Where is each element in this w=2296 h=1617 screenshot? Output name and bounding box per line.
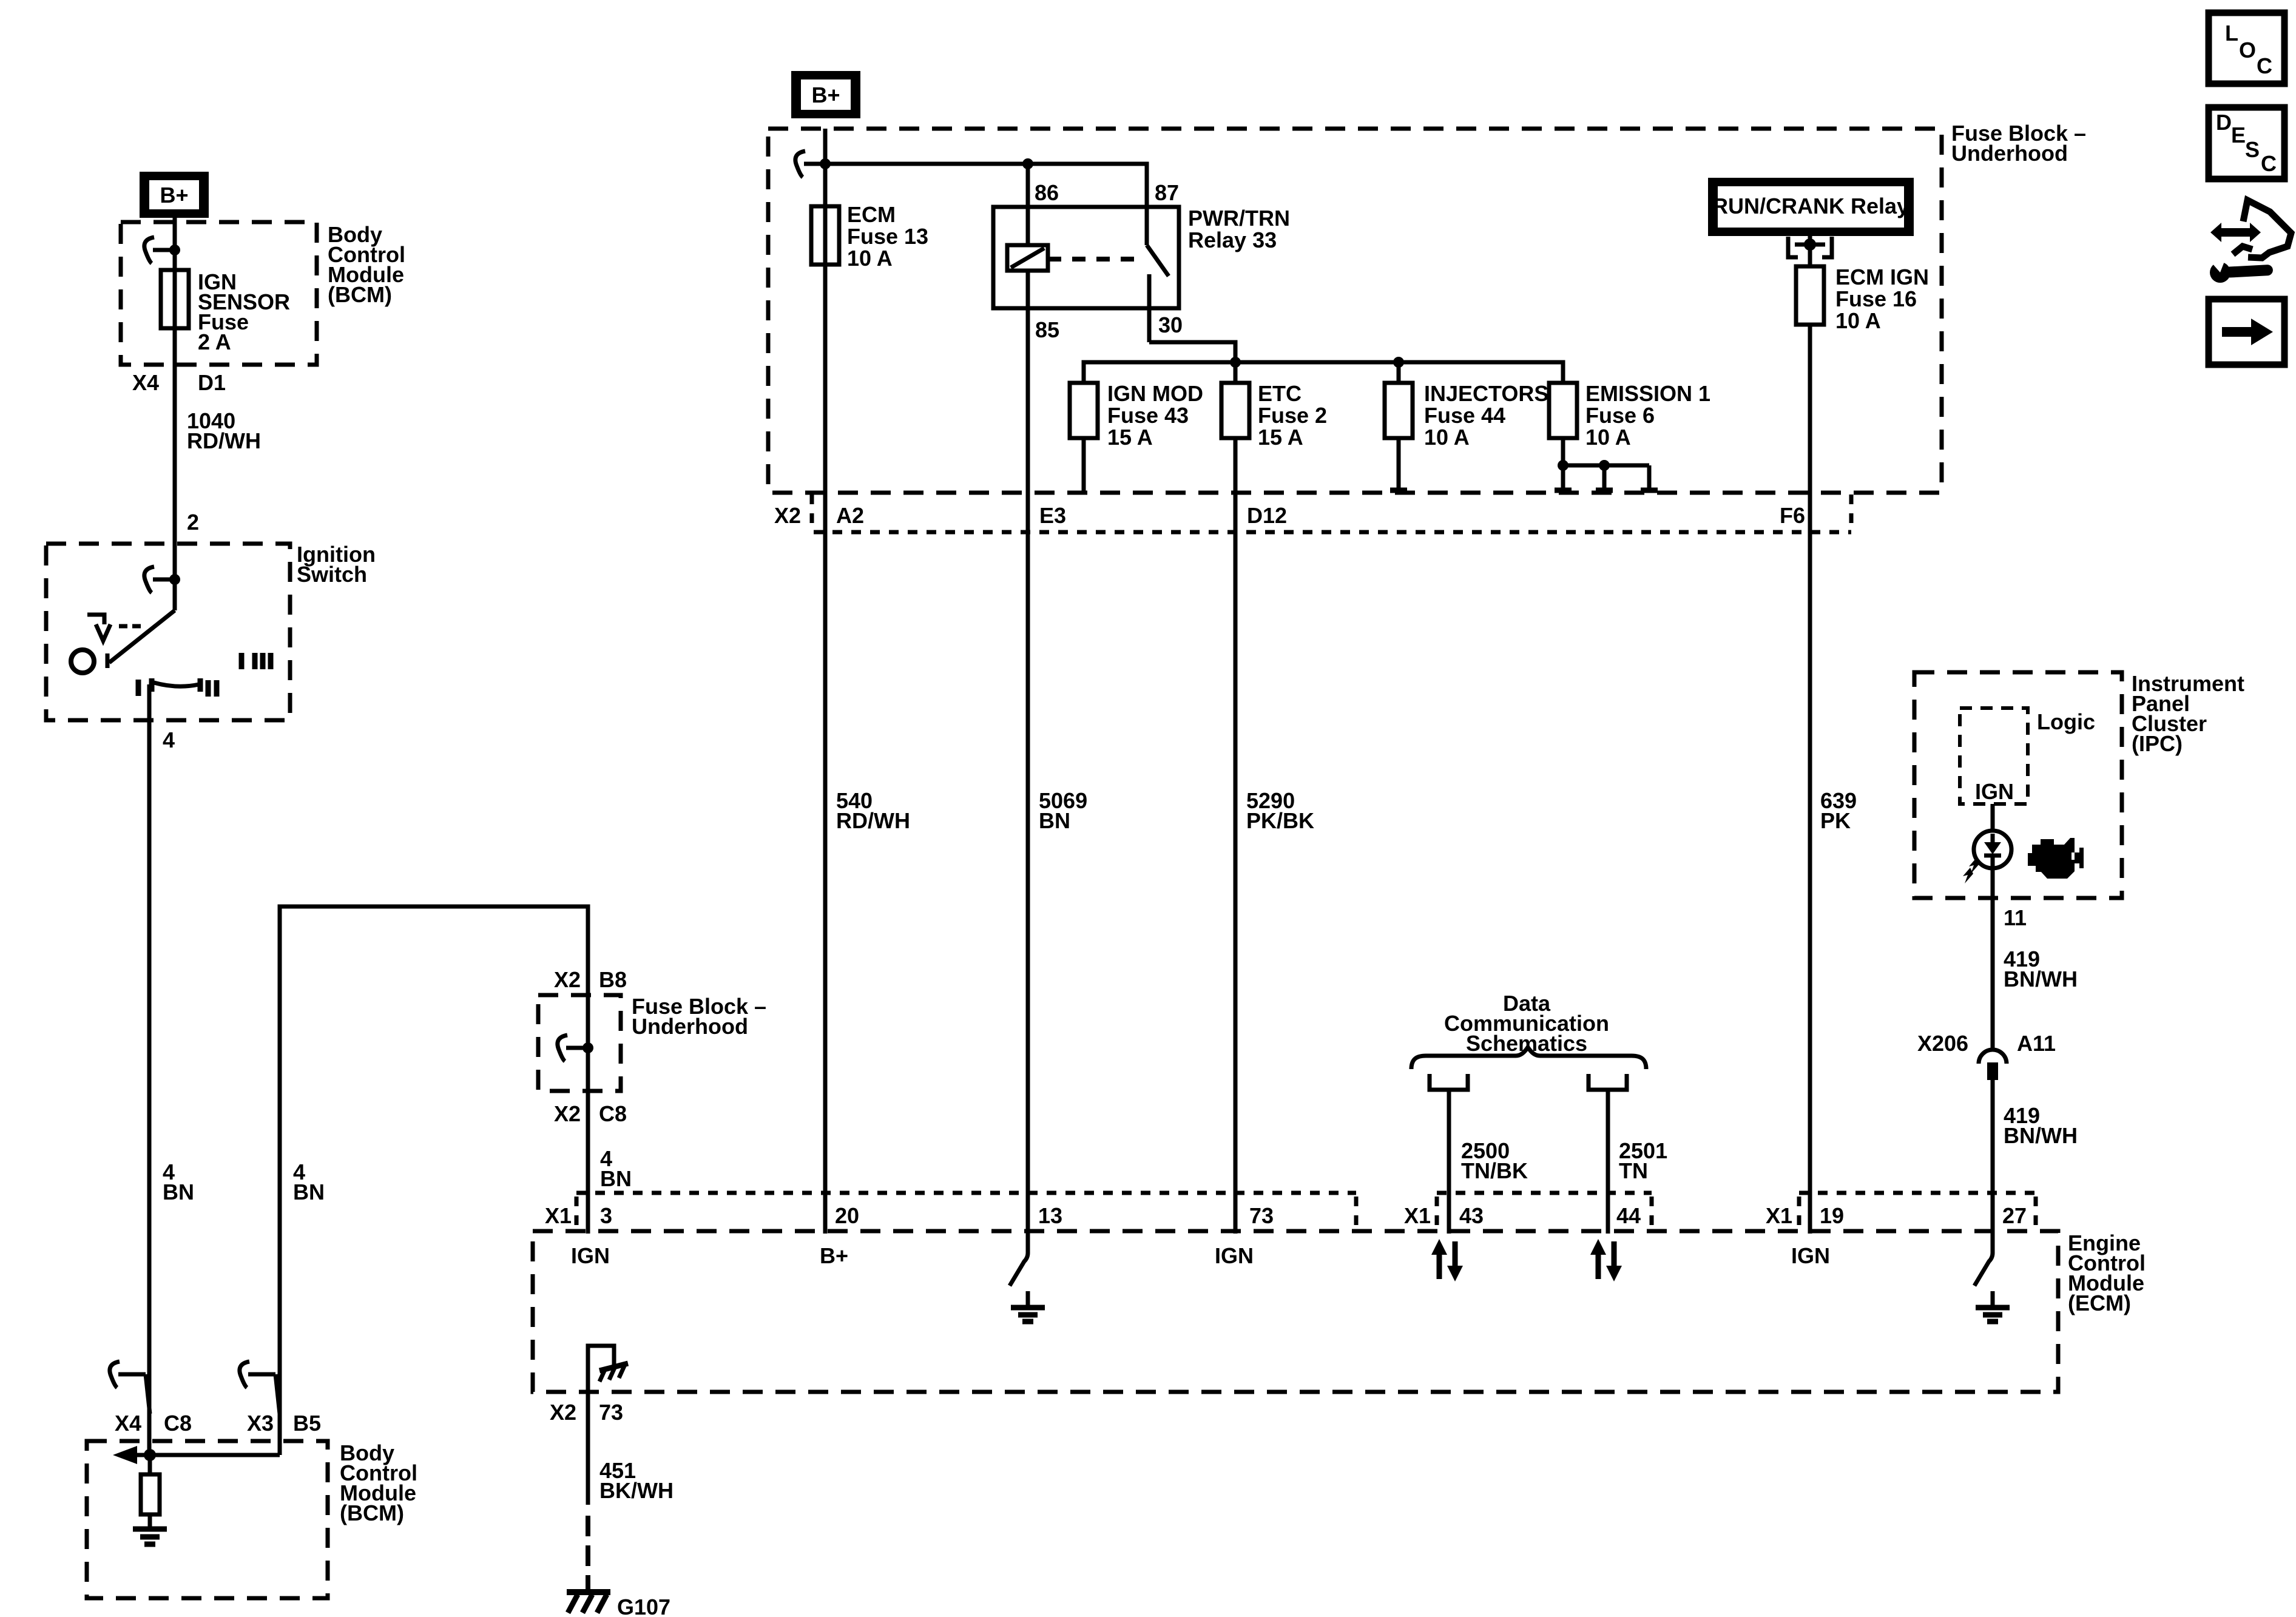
svg-text:X1: X1 bbox=[1404, 1203, 1431, 1228]
ECM pin function labels bbox=[571, 1243, 1830, 1268]
wire 2500 TN/BK to ECM pin 43 bbox=[1449, 1090, 1528, 1234]
BCM bottom pin labels bbox=[115, 1411, 321, 1436]
svg-text:TN: TN bbox=[1619, 1158, 1648, 1183]
icon electrical repair (arrow + wrench) bbox=[2206, 200, 2291, 283]
wire 639 PK : fuse 16 to ECM pin 19 bbox=[1780, 325, 1857, 1234]
svg-text:F6: F6 bbox=[1780, 503, 1805, 528]
Data Communication Schematics label bbox=[1444, 991, 1609, 1056]
wire 5290 PK/BK : ETC fuse to ECM pin 73 bbox=[1235, 438, 1314, 1234]
position marks I III bbox=[241, 653, 271, 669]
ground G107 bbox=[567, 1585, 670, 1617]
svg-text:(BCM): (BCM) bbox=[340, 1501, 404, 1525]
fuse bus bbox=[1084, 357, 1563, 383]
connector clip BCM X3 bbox=[240, 1362, 280, 1414]
svg-text:C8: C8 bbox=[164, 1411, 192, 1436]
svg-text:BN: BN bbox=[1039, 808, 1070, 833]
wire 4 BN labels (left) bbox=[163, 1160, 194, 1204]
ECM internal chassis ground (X2-73) bbox=[588, 1346, 628, 1392]
svg-text:10 A: 10 A bbox=[1835, 308, 1881, 333]
dashed ground lead bbox=[586, 1516, 590, 1592]
svg-text:RUN/CRANK Relay: RUN/CRANK Relay bbox=[1712, 194, 1909, 218]
BCM internal junction and arrow bbox=[113, 1441, 280, 1464]
wire 540 RD/WH : fuse 13 to ECM pin 20 bbox=[825, 164, 910, 1234]
RUN/CRANK Relay label box bbox=[1708, 178, 1914, 236]
svg-text:RD/WH: RD/WH bbox=[187, 428, 261, 453]
relay pin labels bbox=[1035, 180, 1183, 342]
wire 4 BN branch to fuse block bbox=[280, 906, 588, 1441]
svg-text:BN/WH: BN/WH bbox=[2004, 967, 2078, 991]
position arc I II bbox=[138, 678, 217, 697]
svg-text:4: 4 bbox=[163, 727, 175, 752]
bidirectional arrows at pin 44 bbox=[1590, 1239, 1622, 1281]
Engine Control Module (ECM) box bbox=[533, 1231, 2058, 1392]
wire 1040 RD/WH bbox=[132, 328, 261, 544]
svg-text:C: C bbox=[2261, 151, 2277, 176]
svg-text:B+: B+ bbox=[820, 1243, 848, 1268]
svg-text:2 A: 2 A bbox=[198, 329, 231, 354]
wire ignition switch pin 4 bbox=[149, 684, 175, 1455]
fuse EMISSION 1 Fuse 6 10 A bbox=[1549, 381, 1710, 450]
svg-text:Underhood: Underhood bbox=[1951, 141, 2068, 166]
svg-text:IGN: IGN bbox=[571, 1243, 610, 1268]
svg-text:30: 30 bbox=[1158, 312, 1183, 337]
svg-text:PK/BK: PK/BK bbox=[1246, 808, 1314, 833]
svg-text:Switch: Switch bbox=[297, 562, 367, 587]
brace bbox=[1411, 1047, 1646, 1069]
ignition switch rotor circle bbox=[71, 650, 94, 673]
connector clip inside fuse block bbox=[558, 1035, 593, 1061]
svg-text:ECM IGN: ECM IGN bbox=[1835, 265, 1929, 289]
LED indicator bbox=[1963, 804, 2011, 883]
Fuse Block - Underhood (pass-through) bbox=[554, 967, 627, 992]
svg-text:Fuse 43: Fuse 43 bbox=[1107, 403, 1189, 428]
svg-text:X2: X2 bbox=[550, 1400, 576, 1425]
svg-text:X1: X1 bbox=[1766, 1203, 1792, 1228]
svg-text:X3: X3 bbox=[247, 1411, 274, 1436]
svg-text:15 A: 15 A bbox=[1107, 425, 1153, 450]
key/lock glyph bbox=[87, 615, 141, 641]
svg-text:C: C bbox=[2257, 53, 2272, 78]
Fuse Block - Underhood box bbox=[768, 129, 1942, 493]
svg-text:87: 87 bbox=[1155, 180, 1179, 205]
svg-text:IGN: IGN bbox=[1215, 1243, 1254, 1268]
connector half (2501) bbox=[1589, 1074, 1627, 1090]
svg-text:ETC: ETC bbox=[1258, 381, 1302, 406]
svg-text:X2: X2 bbox=[774, 503, 801, 528]
engine icon bbox=[2028, 838, 2084, 879]
svg-text:3: 3 bbox=[600, 1203, 612, 1228]
Ignition Switch box bbox=[46, 544, 290, 720]
wire 4 BN to ECM pin 3 labels bbox=[554, 1101, 632, 1191]
svg-text:IGN MOD: IGN MOD bbox=[1107, 381, 1203, 406]
connector clip at fuse block B+ entry bbox=[795, 151, 831, 177]
fuse block connector row X2 bbox=[774, 495, 1851, 532]
svg-text:X2: X2 bbox=[554, 967, 581, 992]
fuse ECM Fuse 13 10 A bbox=[811, 202, 928, 271]
svg-text:BN: BN bbox=[293, 1180, 325, 1204]
BCM internal ground bbox=[133, 1529, 167, 1544]
svg-text:X2: X2 bbox=[554, 1101, 581, 1126]
wire 419 BN/WH to ECM pin 27 bbox=[1993, 1080, 2078, 1234]
relay contact dashed link bbox=[1048, 257, 1145, 262]
bidirectional arrows at pin 43 bbox=[1431, 1239, 1463, 1281]
ECM connector row X1 (19,27) bbox=[1766, 1193, 2036, 1228]
svg-text:Fuse 6: Fuse 6 bbox=[1585, 403, 1655, 428]
wire 419 BN/WH : IPC pin 11 to X206 bbox=[1993, 867, 2078, 1051]
svg-text:BN: BN bbox=[600, 1166, 632, 1191]
wire 451 BK/WH to G107 bbox=[588, 1392, 674, 1505]
svg-text:B+: B+ bbox=[811, 83, 840, 107]
wire B+ to IGN SENSOR fuse bbox=[173, 218, 177, 272]
svg-text:73: 73 bbox=[1249, 1203, 1274, 1228]
connector clip at BCM B+ input bbox=[144, 237, 180, 263]
svg-text:E: E bbox=[2231, 123, 2246, 147]
svg-text:(BCM): (BCM) bbox=[328, 282, 392, 307]
svg-text:(ECM): (ECM) bbox=[2068, 1291, 2131, 1315]
svg-text:L: L bbox=[2225, 21, 2238, 46]
fuse ETC Fuse 2 15 A bbox=[1221, 362, 1327, 450]
svg-text:IGN: IGN bbox=[1975, 779, 2014, 804]
svg-text:(IPC): (IPC) bbox=[2132, 731, 2183, 756]
Body Control Module (BCM) box top bbox=[121, 222, 317, 365]
connector clip at ignition switch pin 2 bbox=[144, 567, 180, 593]
power symbol B+ (fuse block feed) bbox=[791, 71, 860, 118]
svg-text:D12: D12 bbox=[1247, 503, 1287, 528]
svg-text:X206: X206 bbox=[1917, 1031, 1968, 1056]
icon DESC box bbox=[2209, 107, 2284, 179]
svg-text:BN/WH: BN/WH bbox=[2004, 1123, 2078, 1148]
svg-text:A11: A11 bbox=[2017, 1031, 2056, 1056]
connector clip BCM X4 bbox=[110, 1362, 150, 1414]
svg-text:B+: B+ bbox=[160, 183, 188, 208]
fuse IGN SENSOR 2 A bbox=[161, 269, 290, 354]
svg-text:Relay 33: Relay 33 bbox=[1188, 228, 1277, 252]
svg-text:10 A: 10 A bbox=[1424, 425, 1470, 450]
svg-text:D: D bbox=[2216, 110, 2232, 135]
svg-text:Fuse 44: Fuse 44 bbox=[1424, 403, 1505, 428]
svg-text:11: 11 bbox=[2004, 905, 2027, 930]
svg-text:B5: B5 bbox=[293, 1411, 321, 1436]
svg-text:10 A: 10 A bbox=[847, 246, 893, 271]
Instrument Panel Cluster (IPC) box bbox=[1914, 672, 2122, 898]
icon LOC box bbox=[2209, 13, 2284, 84]
svg-text:X4: X4 bbox=[132, 370, 159, 395]
svg-text:86: 86 bbox=[1035, 180, 1059, 205]
svg-text:Underhood: Underhood bbox=[632, 1014, 748, 1039]
svg-text:19: 19 bbox=[1820, 1203, 1844, 1228]
svg-text:O: O bbox=[2239, 38, 2256, 62]
ECM connector row X1 (43,44) bbox=[1404, 1193, 1652, 1228]
BCM internal resistor bbox=[141, 1455, 160, 1529]
svg-text:ECM: ECM bbox=[847, 202, 896, 227]
svg-text:27: 27 bbox=[2002, 1203, 2027, 1228]
svg-text:PK: PK bbox=[1820, 808, 1851, 833]
icon forward arrow box bbox=[2209, 299, 2284, 365]
ECM internal ground at pin 27 bbox=[1974, 1234, 2010, 1322]
svg-text:INJECTORS: INJECTORS bbox=[1424, 381, 1548, 406]
svg-text:73: 73 bbox=[599, 1400, 623, 1425]
wire 2501 TN to ECM pin 44 bbox=[1608, 1090, 1667, 1234]
relay coil bbox=[1007, 164, 1048, 271]
svg-text:TN/BK: TN/BK bbox=[1461, 1158, 1528, 1183]
svg-text:BK/WH: BK/WH bbox=[599, 1478, 674, 1503]
svg-text:X1: X1 bbox=[545, 1203, 572, 1228]
ECM connector row X1 (3,20,13,73) bbox=[545, 1193, 1356, 1228]
svg-text:85: 85 bbox=[1035, 317, 1059, 342]
svg-text:D1: D1 bbox=[198, 370, 226, 395]
fuse INJECTORS Fuse 44 10 A bbox=[1385, 362, 1548, 491]
svg-text:EMISSION 1: EMISSION 1 bbox=[1585, 381, 1710, 406]
fuse IGN MOD Fuse 43 15 A bbox=[1070, 381, 1203, 491]
relay PWR/TRN Relay 33 box bbox=[993, 207, 1179, 308]
svg-text:BN: BN bbox=[163, 1180, 194, 1204]
svg-text:IGN: IGN bbox=[1791, 1243, 1830, 1268]
svg-text:Fuse 16: Fuse 16 bbox=[1835, 286, 1917, 311]
svg-text:13: 13 bbox=[1038, 1203, 1062, 1228]
wire 5069 BN : relay 85 to ECM pin 13 bbox=[1028, 271, 1087, 1234]
svg-text:X4: X4 bbox=[115, 1411, 141, 1436]
ECM internal ground at pin 13 bbox=[1010, 1234, 1045, 1322]
ignition switch blade bbox=[107, 541, 175, 668]
emission fuse output stubs bbox=[1555, 438, 1658, 491]
svg-text:B8: B8 bbox=[599, 967, 627, 992]
svg-text:43: 43 bbox=[1459, 1203, 1484, 1228]
ECM X2-73 pin labels bbox=[550, 1400, 623, 1425]
svg-text:Logic: Logic bbox=[2037, 709, 2095, 734]
in-line connector X206 A11 bbox=[1917, 1031, 2056, 1080]
fuse ECM IGN Fuse 16 10 A bbox=[1796, 265, 1929, 333]
B+ bus to relay bbox=[825, 158, 1147, 209]
Body Control Module (BCM) box bottom bbox=[87, 1441, 328, 1598]
svg-text:G107: G107 bbox=[617, 1595, 670, 1617]
Logic box bbox=[1960, 708, 2028, 804]
svg-text:Fuse 2: Fuse 2 bbox=[1258, 403, 1327, 428]
power symbol B+ (BCM feed) bbox=[140, 172, 209, 218]
svg-text:15 A: 15 A bbox=[1258, 425, 1303, 450]
wire B+ into fuse block bbox=[823, 129, 828, 209]
wire relay 30 to fuse bus bbox=[1149, 342, 1235, 362]
svg-text:10 A: 10 A bbox=[1585, 425, 1631, 450]
svg-text:PWR/TRN: PWR/TRN bbox=[1188, 206, 1290, 231]
svg-text:A2: A2 bbox=[836, 503, 864, 528]
svg-text:2: 2 bbox=[187, 510, 199, 535]
svg-text:20: 20 bbox=[835, 1203, 859, 1228]
svg-text:44: 44 bbox=[1616, 1203, 1641, 1228]
svg-text:Fuse 13: Fuse 13 bbox=[847, 224, 928, 249]
fuse holder bracket bbox=[1788, 236, 1832, 266]
svg-text:C8: C8 bbox=[599, 1101, 627, 1126]
relay switch blade 87-30 bbox=[1147, 207, 1169, 342]
svg-text:S: S bbox=[2245, 137, 2260, 162]
svg-text:RD/WH: RD/WH bbox=[836, 808, 910, 833]
connector half (2500) bbox=[1430, 1074, 1468, 1090]
svg-text:E3: E3 bbox=[1039, 503, 1066, 528]
